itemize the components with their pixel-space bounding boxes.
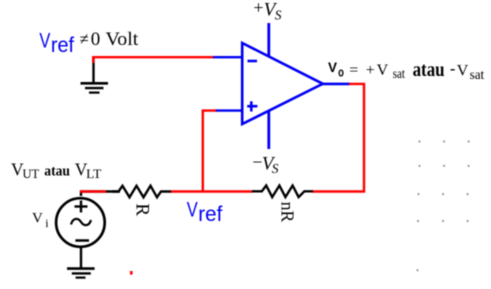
svg-text:nR: nR — [278, 202, 298, 223]
svg-text:V: V — [328, 60, 337, 75]
svg-text:=: = — [349, 62, 358, 79]
wire: red non-inverting corner down to Vref junction — [203, 111, 216, 193]
svg-text:atau: atau — [413, 59, 445, 81]
wire: blue non-inverting input stub — [215, 109, 242, 111]
label Vi — [32, 210, 49, 230]
label VUT atau VLT — [11, 159, 102, 181]
svg-text:V: V — [457, 62, 469, 79]
svg-text:S: S — [275, 8, 282, 23]
power +Vs line — [267, 23, 270, 57]
power -Vs line — [267, 111, 270, 149]
decorative grid dots — [417, 141, 470, 271]
svg-text:sat: sat — [470, 68, 485, 83]
label +Vs — [253, 0, 281, 23]
wire: red from ground node to inverting input — [93, 57, 214, 63]
ground GND2 (below source) — [67, 269, 95, 278]
svg-text:V: V — [377, 62, 389, 79]
svg-text:S: S — [272, 161, 279, 176]
wire: source bottom to ground — [80, 248, 82, 268]
svg-text:Volt: Volt — [106, 29, 140, 50]
wire: blue inverting input stub — [213, 56, 242, 58]
wire: Vref node stub down to ground — [92, 58, 94, 82]
svg-text:R: R — [132, 203, 153, 216]
svg-text:atau: atau — [44, 163, 70, 179]
source minus sign — [75, 239, 89, 242]
svg-text:+: + — [253, 0, 263, 17]
svg-text:LT: LT — [86, 167, 102, 181]
svg-text:ref: ref — [198, 203, 222, 226]
node: red dot marker — [130, 271, 133, 275]
svg-text:≠: ≠ — [80, 29, 89, 48]
label -Vs — [252, 152, 278, 176]
svg-text:V: V — [39, 29, 50, 52]
voltage source Vi circle — [56, 198, 105, 247]
op-amp minus sign — [248, 60, 258, 63]
svg-text:V: V — [32, 210, 43, 226]
svg-text:-: - — [450, 61, 455, 78]
label Vref (node, blue) — [187, 198, 223, 226]
wire: red overlay from source to Vref junction (left part) — [80, 190, 106, 192]
wire: red from R to Vref junction to nR — [171, 190, 253, 192]
svg-text:i: i — [45, 216, 49, 230]
resistor nR — [252, 186, 313, 198]
resistor R — [112, 186, 172, 198]
svg-text:o: o — [338, 64, 344, 79]
source plus sign — [75, 201, 88, 213]
svg-text:0: 0 — [91, 29, 101, 50]
wire: red output corner down to feedback — [312, 84, 364, 192]
label Vref ≠ 0 Volt — [39, 29, 139, 57]
svg-text:ref: ref — [51, 34, 74, 57]
svg-text:UT: UT — [23, 167, 40, 181]
label Vo = +Vsat atau -Vsat — [328, 59, 484, 83]
op-amp plus sign — [247, 101, 257, 111]
source sine symbol — [71, 219, 91, 225]
ground GND1 (top-left) — [81, 83, 109, 92]
wire: blue output stub — [322, 83, 350, 86]
svg-text:+: + — [366, 62, 375, 79]
svg-text:V: V — [187, 198, 198, 221]
svg-text:sat: sat — [393, 67, 405, 82]
op-amp U1 triangle — [242, 43, 323, 124]
wire: black from source top to resistor R — [81, 192, 120, 197]
